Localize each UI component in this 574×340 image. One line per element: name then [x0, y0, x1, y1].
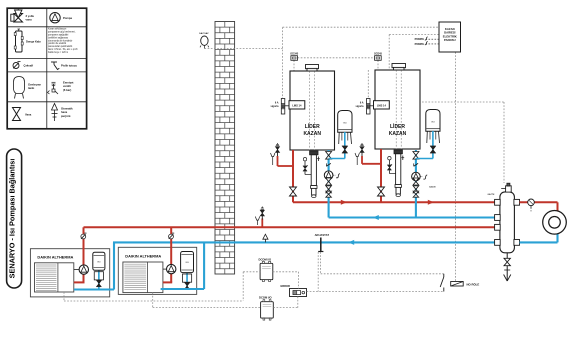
svg-text:DAIKIN ALTHERMA: DAIKIN ALTHERMA — [125, 253, 161, 258]
svg-text:Genleşme: Genleşme — [28, 83, 41, 87]
svg-text:hava: hava — [61, 110, 68, 114]
svg-text:VAS: VAS — [431, 121, 436, 124]
svg-text:GAZ SAY.: GAZ SAY. — [199, 32, 209, 35]
svg-text:Vana: Vana — [25, 113, 32, 117]
svg-text:LİDER: LİDER — [390, 123, 405, 130]
svg-text:GAZ08: GAZ08 — [429, 186, 436, 189]
svg-text:Emniyet: Emniyet — [63, 81, 74, 85]
svg-text:Kablo boyu < 120 m: Kablo boyu < 120 m — [48, 51, 68, 54]
svg-text:Çekvalf: Çekvalf — [24, 63, 34, 67]
svg-text:NO RÖLE: NO RÖLE — [467, 282, 480, 287]
svg-text:DCOM I/O: DCOM I/O — [259, 295, 272, 299]
svg-text:POMPA: POMPA — [415, 37, 424, 41]
svg-text:SENARYO - Isı Pompası Bağlantı: SENARYO - Isı Pompası Bağlantısı — [7, 159, 16, 279]
svg-text:Pompa: Pompa — [63, 16, 72, 20]
svg-text:yardımı ile elektrik: yardımı ile elektrik — [48, 42, 67, 45]
svg-text:ventili: ventili — [63, 84, 71, 88]
svg-text:purjörü: purjörü — [61, 114, 71, 118]
svg-text:PANOSU: PANOSU — [444, 38, 456, 42]
svg-text:sigorta: sigorta — [271, 105, 280, 108]
svg-text:pompasının güç beslemesi,: pompasının güç beslemesi, — [48, 32, 76, 34]
svg-text:POMPA: POMPA — [415, 42, 424, 46]
svg-text:LMS 14: LMS 14 — [292, 103, 302, 107]
svg-text:OCI345: OCI345 — [374, 53, 383, 56]
svg-text:DCOM I/O: DCOM I/O — [259, 258, 272, 262]
svg-text:özellikleri sağlaması: özellikleri sağlaması — [48, 36, 69, 39]
svg-text:vana: vana — [26, 19, 33, 22]
svg-text:LMS 14: LMS 14 — [377, 103, 387, 107]
svg-text:durumunda bir kontaktör: durumunda bir kontaktör — [48, 39, 73, 42]
svg-text:ERROR: ERROR — [281, 284, 290, 288]
svg-text:GAZTK: GAZTK — [488, 193, 495, 196]
svg-text:AKUASTAT: AKUASTAT — [315, 233, 330, 237]
svg-text:Denge Kabı: Denge Kabı — [26, 40, 41, 44]
svg-text:KAZAN: KAZAN — [303, 131, 321, 137]
svg-text:tankı: tankı — [28, 86, 35, 90]
svg-text:Otomatik: Otomatik — [61, 107, 73, 111]
svg-text:DAIKIN ALTHERMA: DAIKIN ALTHERMA — [37, 255, 73, 260]
svg-text:Kazan sirkülasyon: Kazan sirkülasyon — [48, 28, 67, 31]
svg-text:(6 bar): (6 bar) — [63, 88, 71, 92]
svg-text:Pislik tutucu: Pislik tutucu — [61, 63, 77, 67]
svg-text:panosundan çekilmelidir.: panosundan çekilmelidir. — [48, 45, 73, 48]
svg-text:LİDER: LİDER — [305, 123, 320, 130]
svg-text:VAS: VAS — [343, 122, 348, 125]
svg-text:KAZAN: KAZAN — [389, 131, 407, 137]
svg-text:sigorta: sigorta — [356, 105, 365, 108]
svg-text:pompanın aşağıdaki: pompanın aşağıdaki — [48, 33, 69, 36]
svg-text:Akım: 0.5mA - 5A, acc ≤ φ4.8: Akım: 0.5mA - 5A, acc ≤ φ4.8 — [48, 48, 78, 51]
svg-text:OCI345: OCI345 — [290, 53, 299, 56]
svg-text:3 yollu: 3 yollu — [26, 14, 35, 18]
